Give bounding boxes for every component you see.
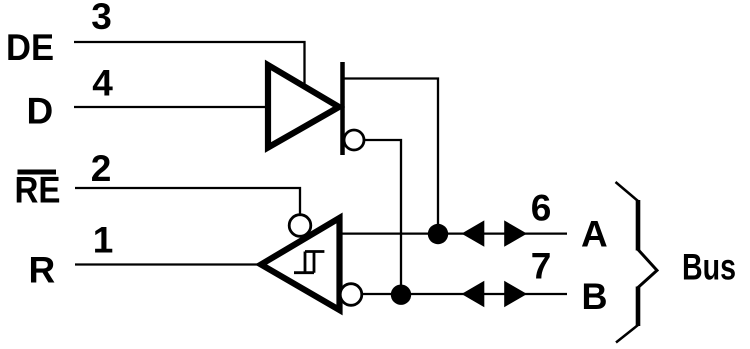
wire bus line B: [362, 293, 568, 295]
svg-text:R: R: [29, 250, 56, 291]
wire DE (pin 3) to driver enable: [74, 42, 305, 86]
svg-text:4: 4: [92, 63, 113, 104]
svg-text:1: 1: [93, 220, 114, 261]
bus brace: [616, 182, 658, 343]
svg-text:2: 2: [91, 148, 112, 189]
svg-text:Bus: Bus: [682, 247, 736, 288]
receiver enable bubble: [289, 215, 311, 237]
junction dot on A: [428, 224, 448, 244]
arrow left on B: [462, 281, 485, 307]
driver inverting bubble: [344, 130, 364, 150]
label RE with overline: [15, 170, 61, 211]
wire bus line A: [340, 232, 567, 234]
arrow right on A: [504, 220, 527, 246]
hysteresis symbol: [294, 252, 324, 273]
wire driver noninverting output Y to A line: [344, 79, 438, 234]
wire D (pin 4) to driver input: [74, 106, 268, 108]
svg-text:B: B: [582, 276, 608, 317]
svg-text:7: 7: [531, 246, 552, 287]
svg-text:DE: DE: [6, 27, 54, 68]
receiver U2 triangle: [261, 218, 340, 310]
svg-text:3: 3: [91, 0, 112, 37]
arrow left on A: [462, 220, 485, 246]
receiver inverting input bubble (B): [340, 284, 362, 306]
wire driver inverting output Z to B line: [364, 140, 401, 295]
driver U1 triangle: [268, 65, 339, 148]
svg-text:RE: RE: [15, 170, 61, 211]
driver output bar: [340, 62, 345, 155]
junction dot on B: [391, 285, 411, 305]
wire R (pin 1) to receiver output: [75, 263, 262, 265]
svg-text:A: A: [581, 214, 608, 255]
svg-text:6: 6: [531, 188, 552, 229]
arrow right on B: [504, 281, 527, 307]
wire RE (pin 2) to receiver enable bubble: [75, 188, 300, 215]
svg-text:D: D: [27, 91, 54, 132]
